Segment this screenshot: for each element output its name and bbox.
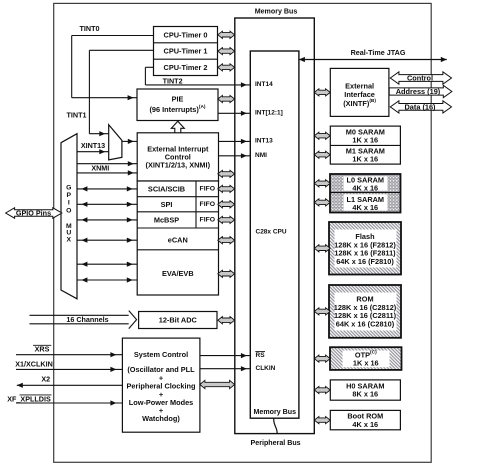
svg-text:FIFO: FIFO	[200, 216, 215, 223]
wire XF_XPLLDIS in	[16, 402, 122, 404]
McBSP bus arrow	[218, 216, 235, 223]
CPU-Timer 1 bus arrow	[218, 48, 235, 55]
gpio peripheral double arrow 2	[77, 203, 137, 205]
svg-text:X1/XCLKIN: X1/XCLKIN	[15, 360, 53, 369]
gpio peripheral double arrow 1	[77, 188, 137, 190]
svg-text:TINT1: TINT1	[67, 111, 87, 120]
svg-text:1K x 16: 1K x 16	[352, 136, 378, 145]
ROM bus arrow	[314, 308, 330, 315]
wire X1/XCLKIN in	[16, 368, 122, 370]
svg-text:CLKIN: CLKIN	[256, 365, 276, 372]
svg-text:Watchdog): Watchdog)	[142, 414, 180, 423]
Boot ROM bus arrow	[314, 417, 330, 424]
svg-text:(96 Interrupts)(A): (96 Interrupts)(A)	[149, 103, 205, 113]
block Flash (hatched)	[329, 222, 401, 275]
block OTP (hatched)	[330, 347, 402, 370]
PIE bus arrow	[218, 95, 235, 102]
wire INT13 to CPU	[219, 140, 251, 142]
svg-text:Memory Bus: Memory Bus	[254, 408, 297, 416]
wire NMI to CPU	[219, 155, 251, 157]
svg-text:O: O	[66, 207, 71, 214]
svg-text:FIFO: FIFO	[200, 201, 215, 208]
svg-text:XNMI: XNMI	[91, 164, 109, 173]
svg-text:CPU-Timer 0: CPU-Timer 0	[164, 30, 208, 39]
H0 bus arrow	[314, 386, 330, 393]
OTP bus arrow	[314, 355, 330, 362]
XINTF bus arrow	[314, 89, 330, 96]
svg-text:Address (19): Address (19)	[396, 87, 441, 96]
svg-text:Real-Time JTAG: Real-Time JTAG	[351, 48, 406, 57]
svg-text:Interface: Interface	[344, 90, 375, 99]
svg-text:64K x 16 (C2810): 64K x 16 (C2810)	[336, 319, 395, 328]
L0 bus arrow	[314, 180, 330, 187]
svg-text:4K x 16: 4K x 16	[352, 184, 378, 193]
svg-text:INT13: INT13	[255, 138, 273, 145]
wire mux output	[122, 140, 137, 142]
svg-text:RS: RS	[256, 352, 266, 359]
wire XNMI	[77, 172, 137, 174]
svg-text:64K x 16 (F2810): 64K x 16 (F2810)	[336, 257, 394, 266]
Ext interrupt ctl bus arrow	[218, 170, 235, 177]
svg-text:System Control: System Control	[134, 350, 188, 359]
svg-text:INT[12:1]: INT[12:1]	[255, 110, 283, 117]
XINT13 MUX trapezoid	[109, 125, 122, 160]
block L0/L1 SARAM (hatched)	[330, 174, 401, 213]
block 12-Bit ADC	[139, 312, 217, 329]
svg-text:eCAN: eCAN	[168, 235, 188, 244]
CPU-Timer 2 bus arrow	[218, 64, 235, 71]
Flash bus arrow	[314, 245, 330, 252]
16 Channels arrow	[30, 314, 129, 316]
svg-text:X2: X2	[41, 374, 50, 383]
svg-text:PIE: PIE	[172, 94, 184, 103]
svg-text:Data (16): Data (16)	[404, 102, 436, 111]
C28x CPU box	[250, 51, 299, 418]
block External Interrupt Control	[137, 133, 218, 181]
svg-text:X: X	[67, 236, 72, 243]
block M0/M1 SARAM	[330, 126, 400, 164]
svg-text:SCIA/SCIB: SCIA/SCIB	[148, 184, 185, 193]
wire XINT13 into mux	[77, 151, 109, 153]
wire PIE to INT[12:1]	[218, 112, 250, 114]
Address bus arrow	[389, 85, 452, 97]
svg-text:4K x 16: 4K x 16	[352, 203, 378, 212]
wire XINT1/2 into ext interrupt control	[77, 163, 137, 165]
svg-text:TINT2: TINT2	[163, 77, 183, 86]
M0 bus arrow	[314, 132, 330, 139]
GPIO Pins arrow	[6, 208, 62, 218]
block H0 SARAM	[330, 380, 400, 400]
ADC bus arrow	[218, 317, 235, 324]
svg-text:Memory Bus: Memory Bus	[255, 7, 298, 15]
svg-text:INT14: INT14	[255, 81, 273, 88]
svg-text:Control: Control	[407, 74, 433, 83]
block Boot ROM	[330, 410, 400, 429]
svg-text:16 Channels: 16 Channels	[66, 315, 108, 324]
svg-text:(XINT1/2/13, XNMI): (XINT1/2/13, XNMI)	[146, 160, 211, 169]
svg-text:XF_XPLLDIS: XF_XPLLDIS	[7, 394, 51, 403]
svg-text:EVA/EVB: EVA/EVB	[162, 269, 194, 278]
block CPU-Timer 0/1/2	[154, 27, 218, 76]
Control bus arrow	[390, 72, 451, 84]
wire TINT2 to INT14	[145, 66, 153, 68]
gpio peripheral double arrow 3	[77, 219, 137, 221]
SPI bus arrow	[218, 201, 235, 208]
System Control bus arrow	[200, 380, 235, 388]
GPIO MUX trapezoid	[61, 134, 77, 299]
svg-text:1K x 16: 1K x 16	[352, 155, 378, 164]
block ROM (hatched)	[329, 285, 401, 338]
svg-text:NMI: NMI	[255, 152, 267, 159]
CPU-Timer 0 bus arrow	[218, 31, 235, 38]
svg-text:XINT13: XINT13	[81, 141, 105, 150]
gpio peripheral double arrow 4	[77, 239, 137, 241]
peripheral bus connector curve	[274, 418, 278, 433]
svg-text:G: G	[66, 185, 71, 192]
block External Interface XINTF	[330, 68, 389, 116]
svg-text:8K x 16: 8K x 16	[352, 390, 378, 399]
L1 bus arrow	[314, 199, 330, 206]
M1 bus arrow	[314, 151, 330, 158]
svg-text:C28x CPU: C28x CPU	[256, 229, 287, 236]
svg-text:FIFO: FIFO	[200, 185, 215, 192]
block PIE	[137, 89, 218, 121]
svg-text:SPI: SPI	[161, 200, 173, 209]
svg-text:12-Bit ADC: 12-Bit ADC	[159, 316, 198, 325]
svg-text:McBSP: McBSP	[154, 215, 179, 224]
gpio peripheral double arrow 6	[77, 279, 137, 281]
block peripheral stack	[137, 181, 218, 295]
svg-text:I: I	[68, 200, 70, 207]
svg-text:4K x 16: 4K x 16	[352, 420, 378, 429]
eCAN bus arrow	[218, 237, 235, 244]
PIE feed up-arrow	[171, 121, 184, 133]
wire CLKIN to CPU	[200, 368, 250, 370]
svg-text:1K x 16: 1K x 16	[353, 358, 379, 367]
block System Control	[122, 338, 199, 432]
svg-text:Peripheral Bus: Peripheral Bus	[251, 439, 301, 447]
wire TINT1	[89, 49, 153, 51]
EVA/EVB bus arrow	[218, 270, 235, 277]
memory/peripheral bus box	[235, 18, 314, 434]
wire TINT0	[72, 35, 154, 37]
SCIA bus arrow	[218, 185, 235, 192]
chip boundary border	[54, 3, 432, 462]
svg-text:P: P	[67, 192, 72, 199]
svg-text:TINT0: TINT0	[80, 24, 100, 33]
svg-text:GPIO Pins: GPIO Pins	[16, 209, 51, 218]
wire XRS in	[16, 354, 122, 356]
Real-Time JTAG arrow	[299, 59, 447, 61]
svg-text:XRS: XRS	[35, 345, 50, 354]
wire RS to CPU	[200, 355, 250, 357]
Data bus arrow	[390, 101, 451, 113]
wire X2 out	[17, 384, 123, 386]
svg-text:CPU-Timer 1: CPU-Timer 1	[164, 47, 208, 56]
gpio peripheral double arrow 5	[77, 263, 137, 265]
svg-text:CPU-Timer 2: CPU-Timer 2	[164, 63, 208, 72]
